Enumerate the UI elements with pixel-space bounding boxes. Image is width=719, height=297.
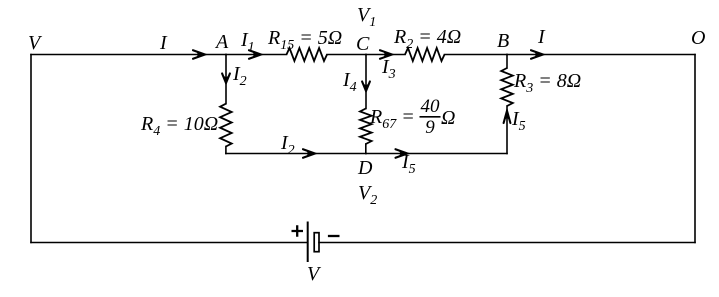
resistor R67 (360, 109, 372, 145)
current arrow I2 (down branch A) (222, 74, 230, 84)
wire: R15 to node C (327, 54, 366, 56)
svg-text:A: A (214, 31, 229, 53)
current arrow I5 (branch B, pointing up) (504, 110, 511, 123)
battery V: short negative plate (314, 233, 319, 252)
svg-text:V1: V1 (357, 4, 376, 30)
svg-text:R4 = 10Ω: R4 = 10Ω (140, 113, 218, 139)
svg-text:R15 = 5Ω: R15 = 5Ω (267, 27, 342, 53)
svg-text:I1: I1 (240, 29, 255, 55)
svg-text:O: O (691, 27, 705, 49)
wire: middle horizontal A-branch to D (226, 153, 366, 155)
wire: R2 to node B (445, 54, 508, 56)
wire: node C to resistor R2 (366, 54, 405, 56)
wire: left side of outer loop (30, 55, 32, 243)
wire: middle horizontal D to B-branch (366, 153, 507, 155)
wire: node B to top-right corner O (507, 54, 695, 56)
wire: bottom right segment from battery (319, 242, 695, 244)
wire: branch B down to R3 (506, 55, 508, 69)
battery minus sign (328, 235, 340, 237)
svg-text:9: 9 (425, 117, 435, 138)
svg-text:V: V (28, 32, 43, 54)
wire: R67 down to node D (365, 144, 367, 154)
current arrow I (after B, pointing right) (531, 50, 544, 59)
wire: branch C down to R67 (365, 55, 367, 109)
current arrow I2 (middle wire, pointing right) (303, 149, 316, 158)
svg-text:I: I (537, 26, 546, 48)
svg-text:I5: I5 (401, 151, 416, 177)
resistor R3 (501, 68, 513, 106)
battery plus sign (292, 225, 304, 236)
current arrow I5 (middle wire, pointing right) (396, 149, 409, 158)
svg-text:Ω: Ω (441, 107, 455, 129)
wire: top segment from V corner to node A (31, 54, 226, 56)
svg-text:C: C (356, 33, 370, 55)
svg-text:I: I (159, 32, 168, 54)
wire: bottom left segment to battery (31, 242, 308, 244)
svg-text:40: 40 (421, 96, 441, 117)
svg-text:V2: V2 (358, 182, 377, 208)
wire: R4 down to middle wire (225, 147, 227, 154)
svg-text:I4: I4 (342, 69, 357, 95)
wire: branch A down to R4 (225, 55, 227, 104)
wire: right side of outer loop (694, 55, 696, 243)
svg-text:D: D (357, 157, 373, 179)
battery V: long positive plate (307, 222, 309, 263)
resistor R2 (405, 48, 445, 61)
current arrow I4 (down branch C) (362, 82, 370, 92)
value label R67 = 40/9 ohm (369, 96, 455, 138)
resistor R4 (220, 104, 232, 147)
current arrow I3 (after C, pointing right) (380, 50, 393, 59)
wire: R3 down to middle wire (506, 106, 508, 154)
wire: node A to resistor R15 (226, 54, 287, 56)
svg-text:I3: I3 (381, 56, 396, 82)
current arrow I (top-left, pointing right) (193, 50, 206, 59)
svg-text:I5: I5 (511, 108, 526, 134)
resistor R15 (287, 48, 328, 61)
svg-text:I2: I2 (232, 63, 247, 89)
current arrow I1 (after A, pointing right) (249, 50, 262, 59)
svg-text:V: V (307, 263, 322, 285)
svg-text:R67 =: R67 = (369, 106, 415, 132)
svg-text:R3 = 8Ω: R3 = 8Ω (513, 70, 581, 96)
svg-text:B: B (497, 30, 509, 52)
